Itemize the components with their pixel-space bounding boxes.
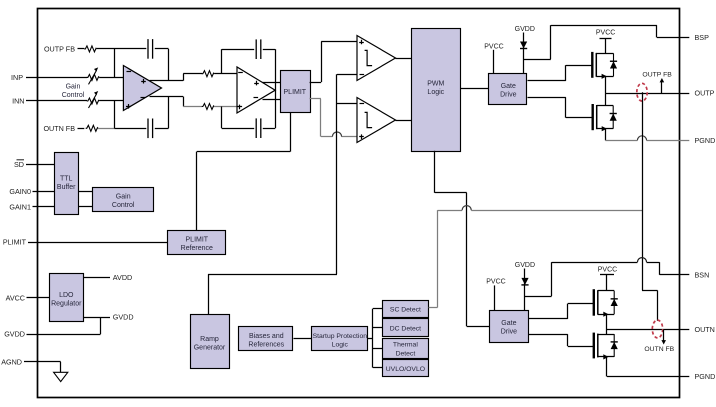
svg-text:Drive: Drive: [500, 92, 516, 99]
block DC Detect: [383, 319, 429, 337]
wire Q4 drain to OUTN: [606, 330, 608, 335]
wire bus to UVLO: [373, 367, 382, 369]
svg-text:Ramp: Ramp: [200, 336, 219, 343]
wire loop2 bottom: [222, 128, 255, 130]
svg-text:INN: INN: [12, 97, 24, 106]
block PLIMIT Reference: [168, 231, 226, 255]
hop BSN over feedback vertical: [637, 258, 646, 263]
wire gate drive 1 top output: [528, 80, 566, 82]
wire loop2 right vertical: [275, 49, 277, 128]
svg-text:Thermal: Thermal: [393, 342, 418, 349]
wire U1 bottom output: [150, 96, 184, 98]
block UVLO/OVLO: [383, 360, 429, 377]
wire OUTN node: [607, 329, 680, 331]
svg-text:SC Detect: SC Detect: [390, 307, 421, 314]
wire bus to SC Detect: [373, 308, 382, 310]
svg-text:Buffer: Buffer: [57, 184, 76, 191]
hop gray sense wire over PWM wire: [462, 206, 471, 211]
transistor Q3: [593, 289, 595, 316]
wire startup to detect bus: [368, 338, 373, 340]
wire Q3 source to OUTN: [606, 314, 608, 329]
wire TTL to Gain Control: [78, 191, 92, 193]
svg-text:Logic: Logic: [427, 89, 444, 96]
block Gain Control: [93, 188, 154, 212]
wire PWM bottom to Gate Drive 2: [434, 151, 436, 193]
wire PVCC to gate drive 2: [494, 285, 496, 310]
AGND ground symbol: [60, 362, 62, 372]
wire ramp to generator: [208, 274, 210, 314]
block Ramp Generator: [191, 315, 230, 369]
svg-text:AVDD: AVDD: [113, 273, 132, 282]
resistor R3 top: [202, 71, 215, 77]
svg-text:Gain: Gain: [116, 194, 131, 201]
wire detect bus vertical: [372, 309, 374, 368]
variable resistor gain INN: [87, 98, 99, 104]
svg-text:Reference: Reference: [181, 245, 213, 252]
wire OUTP node: [605, 93, 679, 95]
transistor Q2 gate lead: [566, 117, 593, 119]
svg-text:BSN: BSN: [695, 270, 710, 279]
svg-text:BSP: BSP: [695, 33, 710, 42]
wire gray R4 to U2: [214, 106, 237, 108]
svg-text:PVCC: PVCC: [484, 43, 503, 50]
svg-text:GVDD: GVDD: [113, 313, 134, 322]
svg-text:Biases and: Biases and: [249, 333, 284, 340]
block Thermal Detect: [383, 339, 429, 359]
wire AVDD output: [83, 277, 110, 279]
svg-text:PVCC: PVCC: [598, 266, 617, 273]
block PWM Logic: [412, 29, 461, 152]
block Biases and References: [239, 327, 293, 351]
body diode of Q3: [613, 291, 615, 315]
wire OUTP feedback vertical: [642, 92, 644, 290]
wire bootstrap to BSP: [524, 59, 551, 61]
resistor OUTN FB feedback: [86, 125, 98, 131]
wire loop1 left verticals: [114, 49, 116, 78]
resistor R4 bottom: [202, 104, 215, 110]
wire CMP1 minus input: [337, 74, 357, 76]
svg-text:Gate: Gate: [501, 320, 516, 327]
wire loop1 right verticals: [168, 49, 170, 81]
svg-text:PVCC: PVCC: [486, 279, 505, 286]
wire GVDD to pin: [100, 317, 102, 334]
svg-text:Detect: Detect: [396, 350, 416, 357]
block Startup Protection Logic: [312, 327, 368, 351]
wire CMP1 output: [396, 58, 412, 60]
svg-text:UVLO/OVLO: UVLO/OVLO: [386, 366, 425, 373]
svg-text:Gain: Gain: [66, 83, 81, 90]
wire CMP2 output: [396, 120, 412, 122]
transistor Q1 gate lead: [566, 65, 593, 67]
op-amp U1 input amplifier: [123, 66, 161, 111]
capacitor C3 top feedback: [255, 39, 257, 59]
capacitor C2 bottom feedback: [147, 119, 149, 139]
wire biases to startup: [294, 338, 312, 340]
svg-text:PLIMIT: PLIMIT: [284, 89, 307, 96]
node OUTP marker (red dashed ellipse): [637, 83, 647, 101]
wire Q2 drain to OUTP: [605, 93, 607, 105]
wire PLIMIT to PLIMIT Reference: [290, 112, 292, 151]
wire gate drive 2 top output: [528, 318, 568, 320]
wire ramp vertical: [336, 74, 338, 274]
wire ramp horizontal: [208, 274, 337, 276]
svg-text:OUTN: OUTN: [695, 325, 715, 334]
comparator CMP2: [357, 98, 396, 143]
wire PVCC to gate drive 1: [493, 50, 495, 74]
block LDO Regulator: [50, 274, 84, 322]
wire U2 outputs to PLIMIT: [263, 82, 281, 84]
svg-text:References: References: [248, 341, 284, 348]
svg-text:DC Detect: DC Detect: [390, 326, 421, 333]
wire bootstrap to BSN: [525, 296, 552, 298]
body diode of Q4: [613, 334, 615, 357]
svg-text:PLIMIT: PLIMIT: [186, 237, 209, 244]
wire PVCC bar top: [600, 38, 612, 40]
wire loop1 bottom: [115, 128, 147, 130]
svg-text:PVCC: PVCC: [596, 30, 615, 37]
wire U1 top output: [150, 80, 184, 82]
wire PVCC bar bottom: [600, 274, 614, 276]
variable resistor gain INP: [87, 74, 99, 80]
svg-text:Control: Control: [62, 92, 85, 99]
svg-text:Control: Control: [112, 202, 135, 209]
svg-text:OUTP FB: OUTP FB: [44, 44, 75, 53]
wire PGND bottom: [607, 376, 680, 378]
capacitor C4 bottom feedback: [255, 118, 257, 138]
wire gray to R4: [183, 106, 202, 108]
svg-text:Generator: Generator: [194, 345, 226, 352]
wire loop1 top: [115, 48, 147, 50]
wire PWM to Gate Drive 1: [460, 88, 489, 90]
svg-text:PGND: PGND: [695, 136, 716, 145]
wire GVDD output: [83, 317, 110, 319]
svg-text:LDO: LDO: [59, 292, 74, 299]
svg-text:Logic: Logic: [332, 341, 349, 348]
svg-text:PLIMIT: PLIMIT: [3, 238, 27, 247]
svg-text:TTL: TTL: [60, 175, 73, 182]
svg-text:PWM: PWM: [427, 81, 444, 88]
block PLIMIT: [281, 71, 311, 113]
wire bus to DC Detect: [373, 327, 382, 329]
capacitor C1 top feedback: [147, 39, 149, 59]
wire SC Detect sense gray: [429, 307, 438, 309]
transistor Q2: [592, 104, 594, 130]
block TTL Buffer: [55, 153, 79, 215]
svg-text:OUTP: OUTP: [695, 89, 715, 98]
hop PGND over feedback vertical: [637, 136, 646, 141]
svg-text:Regulator: Regulator: [51, 301, 82, 308]
svg-text:GVDD: GVDD: [515, 26, 535, 33]
resistor OUTP FB feedback: [84, 46, 96, 52]
svg-text:AVCC: AVCC: [6, 293, 25, 302]
svg-text:GVDD: GVDD: [4, 330, 25, 339]
svg-text:OUTN FB: OUTN FB: [43, 124, 75, 133]
wire CMP2 minus input: [337, 103, 357, 105]
wire GVDD vertical bottom: [524, 269, 526, 311]
diode D2 GVDD bootstrap: [521, 278, 528, 285]
svg-text:OUTN FB: OUTN FB: [644, 346, 674, 353]
wire gate drive 2 bottom output: [528, 334, 568, 336]
wire PLIMIT bottom output gray: [310, 98, 321, 100]
wire Q1 source to OUTP: [605, 76, 607, 93]
block Gate Drive 2: [490, 311, 529, 343]
op-amp U2 second stage: [237, 67, 275, 113]
svg-text:SD: SD: [14, 160, 24, 169]
wire Q2 source to PGND: [605, 129, 607, 141]
svg-text:GVDD: GVDD: [515, 262, 535, 269]
svg-text:OUTP FB: OUTP FB: [642, 71, 672, 78]
comparator CMP1: [357, 36, 396, 81]
svg-text:PGND: PGND: [695, 372, 716, 381]
svg-text:Drive: Drive: [501, 329, 517, 336]
svg-text:GAIN0: GAIN0: [9, 187, 31, 196]
wire gate drive 1 bottom output: [528, 97, 566, 99]
svg-text:AGND: AGND: [1, 357, 22, 366]
wire PLIMIT top output to comparator: [310, 82, 322, 84]
wire bus to Thermal Detect: [373, 348, 382, 350]
wire loop2 top: [222, 49, 255, 51]
transistor Q3 gate lead: [568, 303, 594, 305]
wire Q4 source to PGND: [606, 357, 608, 377]
diode D1 GVDD bootstrap: [520, 42, 527, 49]
wire PGND top gray: [605, 140, 637, 142]
body diode of Q1: [613, 53, 615, 76]
transistor Q4 gate lead: [568, 346, 594, 348]
wire GVDD vertical: [523, 33, 525, 74]
wire OUTN FB gray segment: [98, 128, 114, 130]
transistor Q1: [591, 52, 593, 78]
hop gray wire over ramp line: [332, 132, 341, 137]
block SC Detect: [383, 301, 429, 318]
svg-text:INP: INP: [11, 73, 23, 82]
svg-text:Startup Protection: Startup Protection: [313, 333, 368, 340]
node OUTN marker (red dashed ellipse): [652, 320, 662, 338]
svg-text:Gate: Gate: [501, 83, 516, 90]
transistor Q4: [593, 333, 595, 359]
block Gate Drive 1: [489, 74, 527, 105]
svg-text:GAIN1: GAIN1: [9, 203, 31, 212]
body diode of Q2: [612, 106, 614, 129]
wire loop2 left verticals: [221, 49, 223, 73]
